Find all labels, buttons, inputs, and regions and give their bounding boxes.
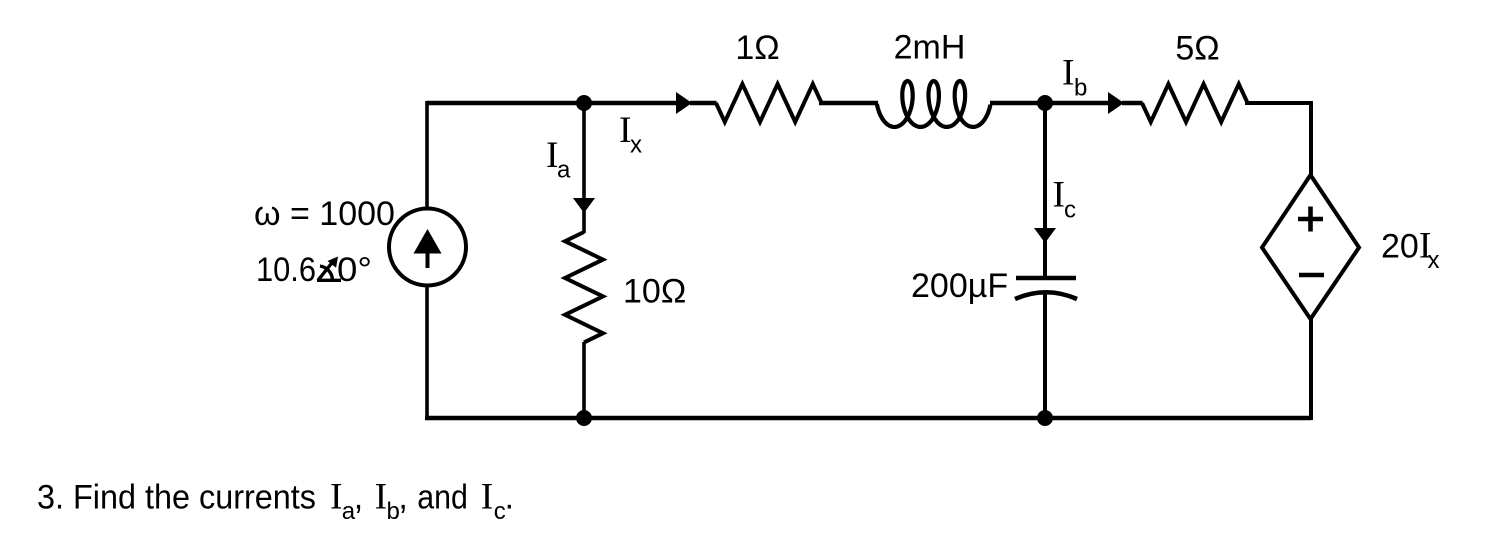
wire left branch lower <box>425 285 429 418</box>
node A dot <box>576 95 592 111</box>
angle symbol arrowhead <box>328 257 339 268</box>
wire node A down to 10ohm <box>582 103 586 233</box>
resistor R 5ohm <box>1142 84 1248 122</box>
svg-text:I: I <box>1062 52 1075 93</box>
wire inductor to node B <box>990 101 1108 105</box>
arrow Ia <box>573 198 595 213</box>
svg-text:,: , <box>354 479 363 517</box>
svg-text:b: b <box>1074 75 1087 102</box>
wire 10ohm to bottom <box>582 342 586 418</box>
svg-text:1Ω: 1Ω <box>735 29 779 67</box>
svg-text:0°: 0° <box>337 251 372 289</box>
svg-text:,: , <box>398 479 407 517</box>
wire bottom <box>425 416 1311 420</box>
svg-text:10Ω: 10Ω <box>623 273 686 311</box>
angle symbol <box>317 262 341 281</box>
svg-text:I: I <box>481 477 494 518</box>
svg-text:c: c <box>1064 197 1076 224</box>
wire top-left horizontal <box>427 101 676 105</box>
wire after Ib arrow to 5ohm <box>1122 101 1143 105</box>
plus sign in diamond <box>1298 207 1324 276</box>
node B bottom dot <box>1037 410 1053 426</box>
capacitor C top plate <box>1016 276 1076 281</box>
svg-text:.: . <box>505 479 514 517</box>
svg-text:I: I <box>330 477 343 518</box>
wire 5ohm to top-right corner <box>1245 103 1311 175</box>
wire node B down to capacitor <box>1043 103 1047 276</box>
svg-text:20I: 20I <box>1381 226 1431 267</box>
current source circle <box>389 209 466 286</box>
svg-text:2mH: 2mH <box>894 29 966 67</box>
resistor R 10ohm <box>565 232 603 342</box>
minus sign in diamond <box>1299 273 1324 278</box>
svg-text:x: x <box>630 132 642 159</box>
svg-text:3. Find the currents: 3. Find the currents <box>37 479 316 517</box>
resistor R 1ohm <box>716 84 822 122</box>
dependent source diamond <box>1262 175 1359 319</box>
svg-text:ω = 1000: ω = 1000 <box>254 195 395 233</box>
node A bottom dot <box>576 410 592 426</box>
svg-text:x: x <box>1428 247 1440 274</box>
svg-text:200µF: 200µF <box>911 267 1008 305</box>
arrow Ib <box>1108 92 1124 114</box>
inductor L 2mH <box>877 81 991 127</box>
current source arrow head <box>414 229 442 254</box>
wire between 1ohm and inductor <box>819 101 878 105</box>
arrow Ix <box>676 92 692 114</box>
svg-text:and: and <box>417 479 468 517</box>
svg-text:5Ω: 5Ω <box>1175 30 1219 68</box>
wire top middle (after Ix arrow to 1ohm) <box>690 101 717 105</box>
svg-text:I: I <box>375 477 388 518</box>
wire capacitor to bottom <box>1043 294 1047 418</box>
svg-text:10.6: 10.6 <box>256 251 316 289</box>
arrow Ic <box>1034 228 1056 243</box>
capacitor C bottom plate (curved) <box>1015 292 1077 299</box>
wire left branch upper <box>425 101 429 209</box>
svg-text:a: a <box>557 157 571 184</box>
current source arrow shaft <box>426 251 430 268</box>
node B dot <box>1037 95 1053 111</box>
wire dep-source bottom to bottom wire <box>1309 319 1313 420</box>
